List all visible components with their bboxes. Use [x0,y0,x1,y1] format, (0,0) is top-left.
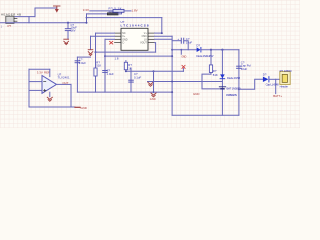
svg-text:1.8: 1.8 [115,56,119,60]
svg-text:REF: REF [44,71,50,75]
svg-text:VOUT: VOUT [140,42,147,45]
node junction rail x172 bottom [171,91,173,93]
wire riser pin3 down [104,39,106,92]
battery BT1 [219,87,225,89]
svg-text:1.8V: 1.8V [132,9,138,13]
wire connector to corner [15,16,35,18]
svg-text:GND: GND [181,54,186,58]
plug J1 [280,72,290,85]
capacitor bank riser C4 [76,57,78,92]
no-ERC marker wire C [182,65,185,68]
op-amp minus sign [44,81,46,83]
wire riser pin1 down [95,33,97,92]
op-amp V+ stub [49,69,51,76]
svg-text:D?: D? [196,44,200,48]
capacitor C1 [65,29,70,31]
svg-text:GND: GND [150,97,156,101]
IC U1 right pins [148,33,155,43]
capacitor C5 [103,71,108,73]
resistor R4 body [124,62,127,69]
svg-text:R? 5.1K: R? 5.1K [109,6,122,10]
wire op-amp top [29,68,50,70]
op-amp plus sign [44,89,46,91]
wire R load riser x211 [210,50,212,74]
wire V+ drop from upper bus [161,18,163,33]
op-amp V- stub [49,92,51,96]
svg-text:3.3V: 3.3V [83,8,89,12]
svg-text:OUT: OUT [62,81,68,85]
svg-text:LTC1044CS8: LTC1044CS8 [121,24,149,28]
node junction riser wireB [171,55,173,57]
svg-text:P? 18650: P? 18650 [280,69,292,73]
node junction GND stub [180,49,182,51]
wire long riser x172 [171,36,173,115]
wire B under IC [105,55,172,57]
wire LV pin right [155,38,173,40]
svg-text:3.3V: 3.3V [37,71,43,75]
ground symbol IC gnd pin [88,50,93,56]
node junction x222.4 [221,49,223,51]
IC U1 pin names left [122,32,128,45]
wire plug stub down [275,79,277,93]
wire down to main bus [28,17,30,23]
svg-text:Diode 1N58: Diode 1N58 [227,76,240,80]
node step junction upper [86,17,88,19]
svg-text:GND: GND [193,92,199,96]
svg-text:GND: GND [80,106,86,110]
wire C1 branch lower [67,31,69,39]
wire ferrite to resistor riser [118,11,121,14]
svg-text:0.1uF: 0.1uF [134,76,141,80]
wire IC pin3 left [105,38,115,40]
op-amp left rail [28,69,30,107]
wire gnd branch down [90,36,92,49]
ground symbol rail left [148,82,153,86]
wire right corner drop [238,50,240,116]
wire C1 branch upper [67,23,69,29]
wire non-inverting input [29,89,42,91]
wire diode to plug [269,78,280,80]
capacitor bank riser C6 [130,68,132,92]
svg-text:D?: D? [263,73,267,77]
svg-text:1N5819WS: 1N5819WS [226,93,237,97]
svg-text:C-: C- [122,42,125,45]
no-ERC marker pin C- [110,41,113,44]
node junction wire B [104,55,106,57]
svg-text:Header: Header [280,85,289,89]
wire inverting input [29,81,42,83]
op-amp U2 [42,76,57,94]
svg-text:10uF: 10uF [241,67,248,71]
ground symbol below rail [151,93,156,97]
resistor R load body [209,65,212,73]
ground symbol op-amp [47,97,52,101]
capacitor C6 [129,80,134,82]
svg-text:TLV2401: TLV2401 [58,76,70,80]
node junction x238.9 battery net [238,88,240,90]
node junction riser output [171,49,173,51]
wire VOUT run [172,49,196,51]
wire riser x153.5 [153,71,155,92]
node step junction [86,22,88,24]
capacitor C4 [75,61,80,63]
wire ferrite row [87,13,108,15]
wire C net riser4 corner [126,61,183,72]
svg-text:BATT+: BATT+ [273,94,282,98]
IC U1 left pins [115,33,122,43]
svg-text:1.0uF: 1.0uF [107,72,114,76]
node junction at C1 branch [67,22,69,24]
svg-text:+: + [177,37,179,41]
GND rail [148,81,223,83]
ferrite bead L1 [107,13,118,15]
wire to output diode [239,79,263,89]
svg-text:P?: P? [8,24,12,28]
wire IC pin1 left [96,32,115,34]
ground symbol below C1 [64,39,69,44]
svg-text:16V: 16V [71,28,76,32]
node junction rail x172 [171,81,173,83]
node V+ junction [161,32,163,34]
node junction wireC corner [125,70,127,72]
diode D3 [263,77,269,82]
capacitor C3 on right riser [237,66,242,68]
wire up branch [35,8,57,17]
wire output [57,83,72,85]
wire R load jog [202,74,222,89]
wire VOUT pin drop [155,43,156,53]
node junction wireC x153.5 [153,70,155,72]
connector P1 [6,16,14,23]
wire VOUT run right [201,49,239,51]
wire resistor row left [90,10,113,12]
power port bar bottom [75,106,80,108]
wire bus step up [86,14,88,23]
bottom loop wire [172,114,239,116]
node junction wire A [95,51,97,53]
wire GND stub [180,50,182,55]
wire flying cap right stub [184,41,188,50]
svg-text:Cap LL4148: Cap LL4148 [266,82,279,86]
svg-text:51K: 51K [96,64,101,68]
wire upper bus [87,17,162,19]
wire C end riser up [182,68,184,71]
node junction rail x153.5 [153,91,155,93]
wire OSC pin right [155,35,173,37]
wire riser C4 top tie [77,56,90,58]
main bus wire [0,22,87,24]
diode D2 SS34 [220,74,225,78]
node junction x211 [210,49,212,51]
wire SS34 branch [221,50,223,116]
diode D1 [197,47,201,52]
wire flying cap left stub [172,40,181,42]
svg-text:1.0uF: 1.0uF [79,61,86,65]
power port VCC arrow [54,6,61,10]
capacitor C2 flying [181,38,183,43]
wire feedback loop [29,84,71,107]
IC U1 body [121,28,148,50]
wire A negative under IC [96,51,156,53]
IC U1 pin names right [140,32,147,45]
wire stub to power port [71,106,75,108]
svg-text:51K: 51K [213,73,218,77]
resistor R2 body [94,68,97,76]
wire IC V+ pin right [155,32,162,34]
resistor R1 [113,9,124,12]
wire resistor row right [124,10,131,12]
wire IC pin2 left [91,35,115,37]
negative rail [77,91,172,93]
